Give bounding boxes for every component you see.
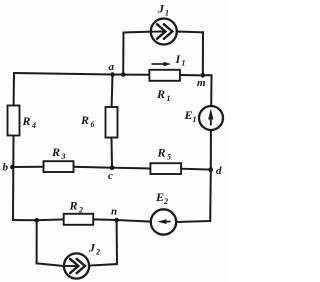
label a — [109, 61, 115, 73]
current arrow I1 — [152, 62, 172, 67]
wire: node a to R1 — [113, 74, 150, 76]
wire: J2 loop right vertical (up to n) — [116, 220, 118, 264]
wire: R3 to node c — [74, 166, 113, 169]
label R3 — [51, 145, 66, 161]
svg-text:3: 3 — [61, 152, 66, 161]
wire: R6 down to node c — [111, 138, 114, 168]
label E1 — [184, 108, 197, 124]
resistor R5 — [150, 163, 181, 174]
label d — [216, 165, 222, 177]
node m — [201, 73, 206, 78]
wire: node b to R3 — [12, 166, 44, 168]
wire: node m to top-right corner and down to E1 — [203, 75, 212, 106]
label R2 — [69, 199, 84, 215]
svg-text:R: R — [69, 199, 78, 213]
wire: J2 loop bottom-left horizontal — [37, 263, 64, 266]
label J1 — [157, 2, 169, 18]
svg-text:2: 2 — [95, 248, 100, 257]
svg-text:d: d — [216, 165, 222, 177]
svg-text:R: R — [157, 146, 166, 160]
svg-text:1: 1 — [182, 59, 186, 68]
node n — [114, 218, 119, 223]
label m — [197, 77, 206, 89]
wire: J2 loop left vertical — [36, 220, 38, 263]
wire: J1 loop top-right horizontal — [177, 31, 203, 34]
svg-text:c: c — [108, 170, 113, 182]
wire: node d down to bottom-right corner — [209, 170, 212, 221]
node a — [110, 72, 115, 77]
svg-text:2: 2 — [78, 206, 83, 215]
label n — [111, 206, 117, 218]
wire: J2 loop bottom-right horizontal — [89, 264, 117, 266]
svg-text:1: 1 — [193, 115, 197, 124]
resistor R2 — [64, 214, 93, 225]
wire: node a down to R6 — [111, 75, 114, 108]
svg-text:J: J — [88, 241, 96, 255]
svg-text:2: 2 — [163, 197, 168, 206]
wire: E1 to node d — [210, 130, 212, 170]
junction: J1 left branch on top wire — [121, 72, 126, 77]
node b — [10, 165, 15, 170]
label J2 — [88, 241, 100, 257]
wire: left edge bottom (R4 down to bottom-left corner) — [12, 136, 15, 221]
label E2 — [155, 190, 168, 206]
wire: node c to R5 — [112, 167, 150, 170]
junction: J2 left branch on bottom wire — [34, 218, 39, 223]
EMF source E2 — [151, 209, 176, 234]
svg-text:1: 1 — [167, 94, 171, 103]
svg-text:R: R — [156, 87, 165, 101]
label c — [108, 170, 113, 182]
svg-text:R: R — [51, 145, 60, 159]
label R5 — [157, 146, 172, 162]
resistor R1 — [149, 70, 180, 81]
svg-text:E: E — [155, 190, 164, 204]
wire: R5 to node d — [181, 168, 211, 171]
svg-text:5: 5 — [167, 153, 171, 162]
label I1 — [175, 52, 186, 68]
svg-text:I: I — [175, 52, 182, 66]
resistor R6 — [106, 107, 118, 138]
wire: bottom-left corner to R2 — [13, 218, 64, 221]
current source J2 — [64, 253, 89, 278]
label R6 — [80, 113, 95, 129]
wire: J1 loop top-left horizontal — [124, 31, 151, 34]
svg-text:m: m — [197, 77, 206, 89]
wire: J1 loop right vertical (down to m) — [202, 32, 204, 75]
svg-text:6: 6 — [91, 120, 95, 129]
node c — [110, 165, 115, 170]
wire: left edge top (corner down to R4) — [13, 73, 15, 106]
label b — [3, 162, 9, 174]
svg-text:J: J — [157, 2, 165, 16]
svg-text:E: E — [184, 108, 193, 122]
wire: top-left horizontal (left corner to node a) — [14, 73, 113, 75]
wire: bottom-right corner to E2 — [176, 221, 210, 222]
svg-text:4: 4 — [31, 121, 36, 130]
node d — [209, 167, 214, 172]
wire: R2 to node n — [93, 218, 117, 221]
svg-text:b: b — [3, 162, 9, 174]
svg-text:R: R — [80, 113, 89, 127]
resistor R4 — [8, 106, 20, 136]
current source J1 — [151, 19, 177, 45]
EMF source E1 — [199, 106, 223, 130]
label R1 — [156, 87, 171, 103]
label R4 — [22, 114, 37, 130]
svg-text:a: a — [109, 61, 115, 73]
svg-text:1: 1 — [165, 9, 169, 18]
wire: R1 to node m — [180, 74, 203, 76]
svg-text:n: n — [111, 206, 117, 218]
svg-text:R: R — [22, 114, 31, 128]
wire: E2 to node n — [117, 220, 151, 222]
resistor R3 — [44, 161, 74, 172]
wire: J1 loop left vertical — [122, 33, 124, 75]
